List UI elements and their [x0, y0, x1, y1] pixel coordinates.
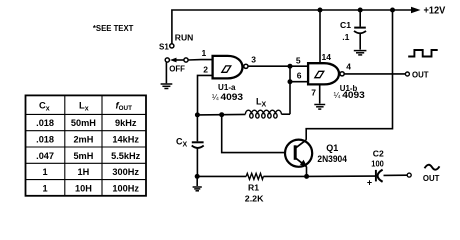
node dot Cx junction [195, 112, 200, 117]
svg-text:14kHz: 14kHz [112, 135, 139, 145]
svg-text:¼4093: ¼4093 [212, 92, 243, 102]
capacitor C1 [354, 10, 366, 50]
svg-text:U1-a: U1-a [218, 83, 236, 92]
node dot rail pin14 [318, 8, 323, 13]
svg-text:1: 1 [202, 48, 207, 58]
svg-text:.047: .047 [36, 151, 54, 161]
node dot pin6 [288, 79, 293, 84]
svg-text:OFF: OFF [169, 64, 185, 74]
terminal OUT bottom [407, 173, 411, 177]
node dot emitter [304, 174, 309, 179]
svg-text:5: 5 [296, 55, 301, 65]
ground (C1) [354, 51, 367, 55]
svg-text:*SEE TEXT: *SEE TEXT [93, 23, 134, 33]
svg-text:R1: R1 [248, 183, 259, 193]
wire Lx right [281, 113, 290, 115]
svg-text:.1: .1 [342, 32, 349, 42]
wire +12V rail [172, 10, 412, 44]
table row 1 [36, 118, 140, 193]
svg-text:¼4093: ¼4093 [334, 90, 365, 100]
svg-text:1: 1 [43, 183, 48, 193]
svg-text:.018: .018 [36, 118, 54, 128]
svg-text:Q1: Q1 [326, 143, 338, 153]
svg-text:10H: 10H [75, 183, 92, 193]
svg-text:9kHz: 9kHz [115, 118, 137, 128]
wire pin 6 [290, 81, 308, 83]
wire pin 7 [319, 85, 321, 104]
wire emitter to C2 [307, 175, 376, 177]
ground (pin 7) [314, 105, 325, 110]
svg-text:5.5kHz: 5.5kHz [111, 151, 141, 161]
svg-text:OUT: OUT [412, 70, 429, 80]
svg-text:2mH: 2mH [73, 135, 93, 145]
svg-text:4: 4 [346, 62, 351, 72]
node dot rail C1 [358, 8, 363, 13]
svg-text:C1: C1 [340, 20, 351, 30]
svg-text:5mH: 5mH [73, 151, 93, 161]
svg-text:+: + [367, 178, 372, 188]
svg-text:100Hz: 100Hz [112, 183, 139, 193]
svg-text:100: 100 [371, 158, 384, 168]
svg-text:7: 7 [311, 88, 316, 98]
NAND gate U1-b [308, 63, 344, 84]
node dot Cx ground junction [195, 174, 200, 179]
square wave symbol [408, 50, 438, 57]
svg-text:RUN: RUN [175, 32, 194, 42]
svg-text:+12V: +12V [424, 6, 446, 17]
wire +12V to Q1 collector [306, 10, 392, 140]
svg-text:C2: C2 [373, 148, 384, 158]
ground (Cx) [193, 187, 202, 191]
wire pin 5 [290, 65, 308, 67]
wire Cx to ground [196, 176, 198, 186]
wire emitter down [306, 167, 308, 177]
capacitor Cx [192, 115, 204, 176]
resistor R1 [246, 173, 263, 179]
wire S1 to ground [165, 62, 167, 83]
svg-text:50mH: 50mH [71, 118, 96, 128]
svg-text:S1: S1 [159, 42, 169, 51]
wire Lx left [197, 113, 245, 116]
terminal OUT top [405, 72, 409, 76]
wire pin 4 to OUT [344, 73, 405, 75]
ground (S1) [161, 84, 173, 89]
capacitor C2 [376, 170, 383, 182]
node dot rail collector [390, 8, 395, 13]
wire Q1 base [222, 115, 285, 153]
transistor Q1 [285, 140, 312, 168]
wire pin 14 [319, 10, 321, 63]
svg-text:14: 14 [322, 52, 332, 62]
+12V arrow [411, 7, 421, 14]
table [26, 95, 147, 195]
wire pin 3 [248, 65, 290, 67]
svg-text:1H: 1H [78, 167, 90, 177]
svg-text:2N3904: 2N3904 [317, 154, 347, 164]
inductor Lx [245, 110, 281, 118]
sine wave symbol [425, 165, 440, 170]
NAND gate U1-a [213, 56, 248, 79]
node dot base junction [219, 112, 224, 117]
svg-text:300Hz: 300Hz [112, 167, 139, 177]
wire pin 1 [188, 59, 213, 61]
wire pin 2 [198, 75, 213, 115]
wire bottom left [197, 175, 246, 177]
svg-text:1: 1 [43, 167, 48, 177]
node pins 5/6 junction vertical [289, 66, 291, 114]
svg-text:6: 6 [297, 71, 302, 81]
svg-text:2.2K: 2.2K [245, 193, 265, 203]
wire R1 to emitter [263, 175, 306, 177]
svg-text:.018: .018 [36, 135, 54, 145]
node dot pin5 [288, 64, 293, 69]
wire C2 to OUT [384, 174, 408, 176]
svg-text:OUT: OUT [423, 173, 440, 183]
svg-text:3: 3 [251, 55, 256, 65]
switch S1 [165, 44, 188, 63]
svg-text:2: 2 [203, 65, 208, 75]
